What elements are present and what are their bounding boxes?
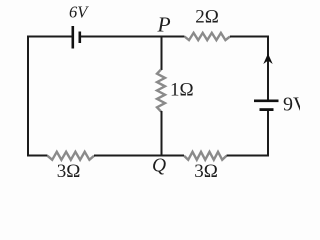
wire: top middle segment (battery to node P to 2ohm): [81, 36, 185, 38]
wire: left vertical: [27, 36, 29, 157]
resistor R3 3ohm left zigzag: [48, 152, 95, 160]
wire: right vertical upper (with current arrow): [267, 36, 269, 101]
wire: bottom right segment: [227, 155, 270, 157]
wire: top left segment to 6V battery: [27, 36, 72, 38]
battery B2 9V short plate: [260, 108, 274, 111]
svg-text:3Ω: 3Ω: [57, 161, 81, 182]
wire: bottom left segment: [27, 155, 48, 157]
wire: middle vertical upper (P to 1ohm): [161, 37, 163, 71]
battery B2 9V long plate: [254, 100, 279, 103]
battery B1 6V short plate: [79, 32, 82, 44]
current direction arrow (up): [263, 54, 272, 65]
battery B1 6V long plate: [72, 26, 75, 49]
resistor R4 3ohm right zigzag: [184, 152, 227, 160]
svg-text:9V: 9V: [283, 94, 300, 116]
svg-text:Q: Q: [152, 156, 166, 177]
svg-text:2Ω: 2Ω: [195, 6, 219, 27]
wire: right vertical lower: [267, 111, 269, 157]
svg-text:P: P: [157, 13, 171, 37]
wire: top right segment: [230, 36, 269, 38]
svg-text:3Ω: 3Ω: [194, 161, 218, 182]
resistor R1 2ohm zigzag: [185, 33, 231, 40]
wire: bottom middle segment (to node Q): [94, 155, 184, 157]
svg-text:6V: 6V: [69, 3, 89, 22]
resistor R2 1ohm zigzag (vertical): [157, 70, 165, 112]
wire: middle vertical lower (1ohm to Q): [161, 111, 163, 156]
svg-text:1Ω: 1Ω: [170, 80, 194, 101]
